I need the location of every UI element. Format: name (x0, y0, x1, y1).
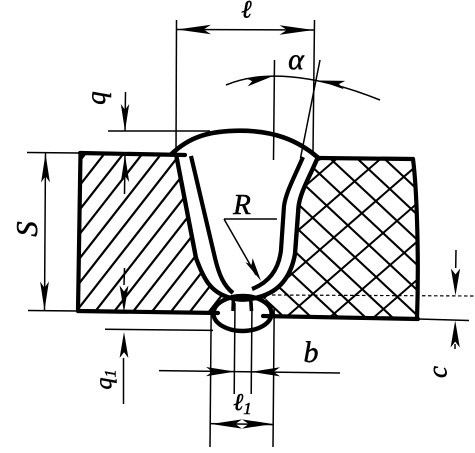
svg-text:q: q (81, 91, 111, 105)
svg-text:ℓ: ℓ (241, 0, 252, 24)
svg-text:R: R (232, 189, 251, 221)
svg-text:b: b (304, 336, 319, 369)
svg-text:α: α (288, 43, 305, 76)
svg-text:S: S (9, 221, 44, 237)
svg-text:c: c (423, 366, 453, 378)
